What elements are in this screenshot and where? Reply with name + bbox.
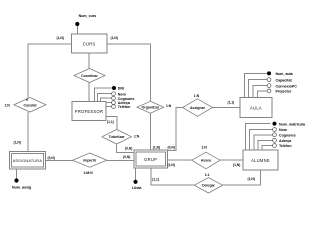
wire Assoc to ALUMNE bbox=[220, 159, 243, 161]
svg-text:1:N: 1:N bbox=[134, 134, 140, 138]
wire CURS left to Consta bbox=[28, 44, 72, 98]
wire Organitza to GRUP bbox=[149, 113, 151, 150]
wire ASSIGNATURA to impartir bbox=[46, 159, 73, 161]
wire PROFESSOR to Tutoritza bbox=[106, 117, 117, 130]
attribute Adreca of PROFESSOR bbox=[106, 102, 112, 104]
entity PROFESSOR bbox=[72, 102, 106, 121]
wire Tutoritza to GRUP bbox=[117, 144, 134, 152]
attribute Projector of AULA bbox=[258, 91, 267, 98]
relationship impartir bbox=[73, 153, 107, 167]
attribute Nom of ALUMNE bbox=[250, 130, 273, 151]
weak entity GRUP bbox=[134, 150, 168, 168]
svg-text:Llista: Llista bbox=[132, 186, 142, 190]
wire GRUP to Assoc bbox=[168, 159, 192, 161]
svg-text:GRUP: GRUP bbox=[144, 157, 157, 162]
svg-text:Organitzar: Organitzar bbox=[142, 106, 160, 110]
svg-text:(1,1): (1,1) bbox=[228, 100, 235, 104]
wire Assignar to GRUP bbox=[168, 108, 183, 151]
attribute Num_matricula of ALUMNE bbox=[246, 124, 271, 150]
svg-text:(1,N): (1,N) bbox=[168, 163, 175, 167]
svg-text:Coordinar: Coordinar bbox=[81, 74, 98, 78]
svg-text:(1,1): (1,1) bbox=[152, 177, 159, 181]
relationship Assignar bbox=[183, 99, 213, 117]
svg-text:Nom: Nom bbox=[279, 128, 287, 132]
relationship Coordina bbox=[74, 69, 105, 83]
svg-text:ALUMNE: ALUMNE bbox=[251, 158, 270, 163]
relationship Tutoritza bbox=[102, 130, 132, 145]
wire CURS right to Organitza bbox=[107, 44, 151, 102]
svg-text:ASSIGNATURA: ASSIGNATURA bbox=[13, 159, 43, 163]
svg-text:AULA: AULA bbox=[250, 105, 262, 110]
relationship Consta bbox=[14, 98, 46, 113]
svg-text:0: 0 bbox=[26, 98, 28, 102]
attribute Num_aula of AULA bbox=[244, 73, 267, 97]
svg-text:Tutoritzar: Tutoritzar bbox=[109, 135, 126, 139]
attribute Capacitat of AULA bbox=[249, 80, 267, 98]
wire Consta to ASSIGNATURA bbox=[27, 112, 29, 152]
wire Coordina to PROFESSOR bbox=[88, 83, 90, 102]
svg-text:Num_matricula: Num_matricula bbox=[279, 122, 306, 126]
attribute Nom of PROFESSOR bbox=[98, 94, 112, 102]
svg-text:(0,N): (0,N) bbox=[125, 146, 132, 150]
svg-text:(1,N): (1,N) bbox=[233, 163, 240, 167]
attribute Telefon of PROFESSOR bbox=[106, 106, 112, 108]
weak entity ASSIGNATURA bbox=[9, 152, 45, 170]
svg-text:Asseu: Asseu bbox=[201, 159, 212, 163]
svg-text:(1,N): (1,N) bbox=[57, 36, 64, 40]
svg-text:CURS: CURS bbox=[83, 42, 96, 47]
attribute DNI of PROFESSOR bbox=[95, 88, 112, 102]
svg-text:Delegar: Delegar bbox=[202, 184, 215, 188]
attribute Num_curs of CURS bbox=[76, 26, 78, 34]
entity CURS bbox=[72, 34, 108, 53]
svg-text:Num_aula: Num_aula bbox=[276, 72, 294, 76]
attribute ConnexioPC of AULA bbox=[253, 86, 267, 98]
svg-text:1:N: 1:N bbox=[194, 94, 200, 98]
relationship Delegar bbox=[194, 178, 222, 193]
svg-text:Projector: Projector bbox=[276, 90, 292, 94]
wire Delegar to ALUMNE bbox=[223, 170, 261, 185]
attribute Adreca of ALUMNE bbox=[258, 140, 273, 150]
svg-text:Capacitat: Capacitat bbox=[276, 78, 293, 82]
svg-text:(0,N): (0,N) bbox=[168, 145, 175, 149]
wire GRUP to Delegar bbox=[151, 168, 195, 185]
svg-text:(1,N): (1,N) bbox=[111, 36, 118, 40]
wire CURS bottom to Coordina bbox=[88, 53, 90, 69]
svg-text:PROFESSOR: PROFESSOR bbox=[75, 109, 103, 114]
svg-text:Num_curs: Num_curs bbox=[79, 14, 97, 18]
svg-text:Constat: Constat bbox=[23, 103, 37, 107]
wire Assignar to AULA bbox=[213, 107, 241, 109]
svg-text:(0,N): (0,N) bbox=[123, 155, 130, 159]
svg-text:impartir: impartir bbox=[83, 159, 97, 163]
svg-text:(0,N): (0,N) bbox=[48, 156, 55, 160]
attribute Cognoms of ALUMNE bbox=[254, 135, 273, 150]
svg-text:Cognoms: Cognoms bbox=[118, 97, 135, 101]
svg-text:Telèfon: Telèfon bbox=[118, 105, 131, 109]
svg-text:1:N: 1:N bbox=[202, 146, 208, 150]
attribute Telefon of ALUMNE bbox=[262, 146, 273, 151]
svg-text:ConnexioPC: ConnexioPC bbox=[276, 84, 298, 88]
relationship Assoc bbox=[192, 152, 220, 169]
svg-text:1:1: 1:1 bbox=[205, 173, 210, 177]
svg-text:(1,N): (1,N) bbox=[248, 177, 255, 181]
relationship Organitza bbox=[137, 101, 164, 113]
svg-text:1:N: 1:N bbox=[166, 104, 172, 108]
attribute Llista of GRUP bbox=[135, 168, 137, 180]
wire impartir to GRUP bbox=[107, 159, 134, 161]
svg-text:1:M:N: 1:M:N bbox=[84, 171, 94, 175]
attribute Num_assig of ASSIGNATURA bbox=[16, 169, 18, 179]
entity ALUMNE bbox=[243, 150, 278, 170]
svg-text:DNI: DNI bbox=[118, 87, 124, 91]
attribute Cognoms of PROFESSOR bbox=[100, 98, 111, 101]
svg-text:Nom: Nom bbox=[118, 92, 126, 96]
svg-text:1:N: 1:N bbox=[5, 104, 11, 108]
svg-text:Num_assig: Num_assig bbox=[12, 185, 31, 189]
svg-text:(1,1): (1,1) bbox=[107, 120, 114, 124]
svg-text:(1,N): (1,N) bbox=[153, 145, 160, 149]
svg-text:Adreça: Adreça bbox=[279, 139, 292, 143]
svg-text:Assignar: Assignar bbox=[190, 106, 206, 110]
svg-text:(1,N): (1,N) bbox=[14, 141, 21, 145]
svg-text:Cognoms: Cognoms bbox=[279, 134, 296, 138]
entity AULA bbox=[240, 98, 272, 118]
svg-text:Telèfon: Telèfon bbox=[279, 144, 292, 148]
